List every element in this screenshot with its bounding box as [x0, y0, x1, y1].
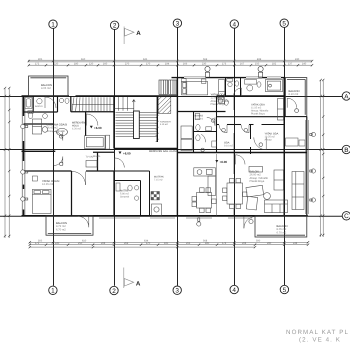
svg-text:305: 305	[38, 58, 43, 61]
svg-text:569: 569	[203, 58, 208, 61]
svg-text:208: 208	[242, 242, 247, 245]
svg-text:C: C	[344, 213, 349, 220]
left wall window double lines	[22, 96, 25, 216]
balcony top-left label	[41, 84, 52, 90]
bathroom1 tub	[25, 98, 32, 109]
fan stair walls	[71, 96, 114, 112]
svg-text:6.70 m2: 6.70 m2	[277, 231, 287, 234]
living door arcs	[54, 132, 63, 166]
top dimension numbers	[35, 58, 307, 65]
svg-text:290: 290	[267, 242, 272, 245]
row A wall (left half)	[22, 95, 178, 97]
living room partition x53.5	[53, 114, 55, 171]
balcony bottom-left	[46, 216, 93, 235]
svg-text:230: 230	[295, 58, 300, 61]
svg-text:635: 635	[143, 58, 148, 61]
merdiven holu label	[72, 122, 85, 131]
svg-text:4: 4	[232, 287, 236, 294]
bathroom1 label	[35, 105, 43, 108]
salon sofa bottom	[265, 200, 288, 213]
antre label	[120, 190, 130, 199]
svg-text:220: 220	[54, 62, 59, 65]
svg-text:+6.00: +6.00	[220, 160, 228, 164]
stair center well	[134, 111, 140, 139]
svg-text:+6.00: +6.00	[94, 126, 102, 130]
svg-text:195: 195	[164, 242, 169, 245]
kitchen checker tiles	[151, 192, 159, 200]
top wall right half	[172, 77, 286, 79]
bottom dimension numbers	[35, 240, 298, 245]
bottom wall window sills	[99, 217, 252, 219]
svg-text:2: 2	[112, 288, 116, 295]
svg-text:Plastik Boya: Plastik Boya	[211, 103, 226, 106]
balcony bottom-left door arc	[78, 216, 89, 227]
living room oval table	[57, 128, 68, 135]
top bathroom tub	[266, 80, 283, 92]
hall door arc 3	[254, 137, 266, 149]
level marker right unit	[215, 160, 227, 164]
balcony top-right	[285, 78, 306, 117]
col3 unit wall	[176, 78, 178, 216]
asansor label	[160, 121, 171, 127]
downspout symbols below bottom wall	[197, 218, 253, 226]
svg-text:166: 166	[183, 62, 188, 65]
svg-text:4.10 m2: 4.10 m2	[160, 123, 169, 126]
svg-text:500: 500	[256, 240, 261, 243]
wc walls middle	[114, 181, 141, 216]
bedroom2 label	[265, 133, 279, 142]
bottom dimension ticks	[29, 241, 310, 248]
balcony bottom-right	[255, 216, 307, 237]
grid column lines	[54, 27, 285, 285]
svg-text:Ahsap / Mineflo: Ahsap / Mineflo	[47, 130, 66, 133]
salon bookshelf	[274, 170, 284, 190]
svg-text:1: 1	[51, 22, 55, 29]
svg-text:5: 5	[283, 287, 287, 294]
section flag bottom	[124, 268, 134, 289]
svg-text:(2. VE 4. K: (2. VE 4. K	[299, 337, 341, 344]
svg-text:MERDIVEN SAH. ALANI: MERDIVEN SAH. ALANI	[149, 150, 177, 153]
right dimension lines	[321, 80, 324, 237]
right edge window lines	[305, 120, 308, 214]
grid bubbles right (A,B,C)	[342, 92, 350, 220]
svg-text:1: 1	[51, 288, 55, 295]
left unit corridor wall	[93, 152, 114, 171]
stair landing line	[114, 108, 134, 110]
right edge wall	[306, 117, 308, 216]
stair up arrow	[132, 100, 135, 112]
wc below bathroom	[196, 134, 217, 151]
living label	[47, 124, 68, 133]
grid row lines	[0, 97, 342, 217]
svg-text:269: 269	[124, 242, 129, 245]
hall door arc 2	[241, 125, 249, 133]
corridor closets right unit	[181, 126, 192, 151]
dimension tick marks top line2	[28, 64, 314, 66]
balcony top-left	[29, 76, 68, 96]
svg-text:140: 140	[302, 62, 307, 65]
stair treads left flight	[116, 112, 134, 136]
dining area divider glass	[216, 154, 218, 216]
wc fixtures left	[28, 111, 48, 119]
nightstand	[32, 176, 37, 181]
svg-text:167: 167	[240, 62, 245, 65]
bottom wall	[22, 215, 308, 217]
bedroom1 label	[211, 94, 230, 107]
balcony top-right knob	[295, 109, 299, 113]
small wc fixtures near col4 top	[227, 79, 239, 87]
svg-text:Seramik: Seramik	[120, 196, 130, 199]
svg-text:172: 172	[35, 62, 40, 65]
svg-text:150: 150	[255, 62, 260, 65]
bedroom bottom-left label	[42, 180, 60, 186]
svg-text:M.HOL: M.HOL	[93, 155, 101, 158]
mid bathroom door arc	[207, 117, 215, 125]
svg-text:180: 180	[74, 62, 79, 65]
svg-text:12.35 m2: 12.35 m2	[42, 183, 54, 186]
svg-text:194: 194	[165, 62, 170, 65]
balcony top-right door arc	[287, 98, 297, 108]
svg-text:270: 270	[125, 62, 130, 65]
bedroom door arc left	[72, 171, 86, 185]
svg-text:6.10 m2: 6.10 m2	[289, 93, 299, 96]
right strip closet	[286, 138, 306, 146]
row B wall left	[22, 150, 56, 152]
hall door arc 1	[219, 125, 227, 133]
svg-text:4.05 m2: 4.05 m2	[41, 87, 51, 90]
salon label	[250, 171, 269, 184]
bedroom1 partition	[225, 78, 227, 96]
svg-text:A: A	[344, 93, 349, 100]
balcony bottom-right door arc	[244, 217, 256, 229]
level marker +6.00 core	[119, 152, 131, 156]
bedroom2 wardrobe	[278, 99, 284, 121]
svg-text:Plastik Boya: Plastik Boya	[250, 180, 265, 183]
balcony bottom-right label	[277, 225, 288, 234]
top dimension lines	[28, 60, 312, 65]
svg-text:9.10 m2: 9.10 m2	[224, 145, 234, 148]
stair treads right flight	[139, 112, 156, 136]
outer wall left piers	[23, 96, 25, 216]
svg-text:4.60 m2: 4.60 m2	[195, 117, 204, 120]
svg-text:208: 208	[101, 242, 106, 245]
oda label	[224, 142, 234, 148]
dining table w chairs	[192, 188, 216, 213]
svg-text:ASANSOR: ASANSOR	[160, 121, 171, 124]
hallway bottom wall right unit	[217, 124, 285, 126]
kitchen wall middle	[114, 171, 150, 216]
entry door arc to unit	[115, 158, 125, 168]
top bathroom toilet	[257, 82, 261, 87]
bathroom1 sink	[37, 99, 42, 104]
upper flight treads	[119, 97, 128, 111]
top bathroom door arc	[234, 88, 242, 96]
corridor north wall right unit	[217, 116, 285, 118]
chimney symbols on top wall	[205, 66, 263, 77]
svg-text:610: 610	[82, 240, 87, 243]
core right wall hatch	[156, 115, 159, 142]
svg-text:3: 3	[175, 288, 179, 295]
dimension tick marks top line1	[28, 60, 314, 62]
bedroom1 wardrobe	[219, 80, 225, 104]
bedroom2 partition	[250, 125, 252, 155]
svg-text:216: 216	[186, 242, 191, 245]
svg-text:172: 172	[35, 242, 40, 245]
right wall col5	[283, 78, 285, 216]
mutfak label middle	[154, 176, 164, 182]
salon sofa set	[246, 185, 270, 210]
desk living room	[32, 119, 47, 134]
svg-text:170: 170	[146, 62, 151, 65]
svg-text:2: 2	[113, 23, 117, 30]
hall closet left unit	[85, 135, 110, 149]
level marker left unit	[90, 126, 102, 130]
elevator shaft hatch	[158, 97, 171, 114]
bedroom1 nightstands	[182, 79, 206, 84]
duct boxes above col3	[159, 80, 177, 95]
mid bathroom fixtures	[195, 114, 211, 131]
salon dining table2 with chairs	[223, 179, 247, 209]
svg-text:B: B	[344, 147, 348, 154]
hall top wall left unit	[24, 170, 115, 172]
right strip room wall	[284, 116, 307, 118]
grid bubbles top	[49, 19, 289, 29]
svg-text:3: 3	[176, 21, 180, 28]
left unit fan stair treads	[72, 97, 114, 111]
left radiator circles	[21, 124, 28, 201]
stair core label	[149, 150, 177, 153]
col2 wall lower	[113, 171, 115, 216]
balcony bottom-left label	[56, 222, 67, 231]
left dimension ticks	[4, 87, 11, 237]
stairwell walls	[114, 96, 177, 149]
svg-text:220: 220	[55, 242, 60, 245]
mid bathroom walls	[194, 96, 217, 153]
svg-text:182: 182	[272, 62, 277, 65]
bedroom bottom-left bed	[32, 189, 51, 213]
svg-text:+6.00: +6.00	[123, 152, 131, 156]
small wc next to bathroom	[59, 98, 69, 103]
row A wall (right part)	[217, 95, 286, 97]
kitchen counter middle	[152, 204, 162, 215]
right dimension ticks	[320, 79, 325, 236]
grid bubbles bottom	[49, 285, 289, 294]
salon tv unit	[249, 167, 263, 173]
salon top wall	[217, 152, 307, 154]
bathroom1 walls	[24, 96, 58, 124]
top bath partition	[240, 78, 242, 96]
corridor wall left unit x85.6	[85, 112, 87, 136]
svg-text:BANYO: BANYO	[35, 105, 43, 108]
svg-text:120: 120	[89, 62, 94, 65]
kitchen counter right unit	[194, 168, 216, 196]
svg-text:Plastik Boya: Plastik Boya	[251, 112, 265, 115]
svg-text:173: 173	[222, 62, 227, 65]
col4 wall segments	[233, 96, 235, 216]
wc fixtures below row A	[218, 97, 229, 105]
bedroom divider left	[71, 171, 73, 216]
svg-text:137: 137	[288, 62, 293, 65]
salon couch right	[292, 172, 304, 210]
svg-text:180: 180	[205, 242, 210, 245]
svg-text:160: 160	[103, 62, 108, 65]
mid bathroom label	[195, 115, 204, 121]
svg-text:610: 610	[81, 58, 86, 61]
svg-text:4.20 m2: 4.20 m2	[72, 128, 82, 131]
bedroom1 bed	[182, 82, 208, 95]
stair hall door arc	[86, 114, 98, 126]
svg-text:4: 4	[233, 21, 237, 28]
svg-text:6.70 m2: 6.70 m2	[56, 228, 66, 231]
right facade symbols	[310, 132, 316, 202]
svg-text:230: 230	[202, 62, 207, 65]
bedroom1 bottom wall	[177, 111, 225, 113]
svg-text:238: 238	[293, 242, 298, 245]
svg-text:250: 250	[78, 242, 83, 245]
svg-text:499: 499	[257, 58, 262, 61]
section flag top	[124, 27, 134, 45]
bathroom1 door arc	[45, 97, 56, 108]
left dimension lines	[5, 88, 9, 238]
wc fixtures middle	[116, 183, 139, 200]
svg-text:NORMAL KAT PL: NORMAL KAT PL	[286, 329, 349, 336]
svg-text:5: 5	[282, 21, 286, 28]
svg-text:Ahsap: Ahsap	[265, 139, 273, 142]
svg-text:A: A	[136, 280, 141, 287]
living cabinet near corridor wall	[86, 161, 97, 168]
bottom dimension lines	[29, 242, 308, 247]
svg-text:7.15 m2: 7.15 m2	[154, 178, 163, 181]
top bathroom counter	[245, 80, 257, 85]
yatak oda mid label	[251, 104, 269, 116]
top wall windows	[184, 77, 281, 79]
balcony top-right label	[289, 90, 300, 96]
svg-text:174: 174	[222, 242, 227, 245]
svg-text:A: A	[136, 30, 141, 37]
svg-text:170: 170	[146, 242, 151, 245]
top bathroom sink	[247, 85, 253, 91]
salon entry door arc at col4	[235, 155, 245, 165]
corridor bottom wall right unit	[177, 152, 216, 154]
svg-text:TV UN.: TV UN.	[86, 156, 94, 159]
